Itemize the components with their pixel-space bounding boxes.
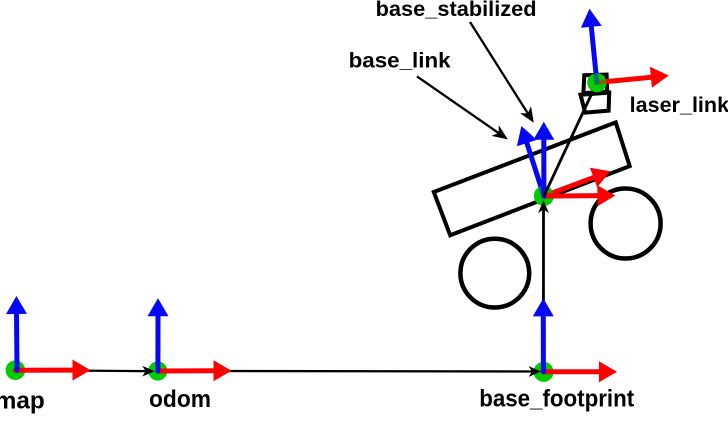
svg-text:base_footprint: base_footprint — [479, 386, 634, 413]
svg-text:odom: odom — [149, 386, 211, 413]
svg-text:laser_link: laser_link — [630, 93, 728, 117]
svg-text:base_stabilized: base_stabilized — [376, 0, 537, 21]
svg-text:base_link: base_link — [349, 48, 451, 72]
svg-text:map: map — [0, 388, 45, 415]
